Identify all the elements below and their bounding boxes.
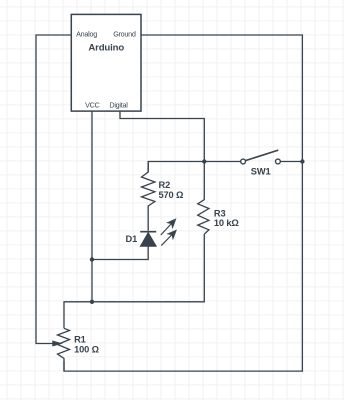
svg-text:SW1: SW1 (251, 166, 271, 176)
wire VCC down (91, 111, 93, 302)
wire Digital to node (120, 111, 204, 162)
svg-text:Arduino: Arduino (88, 42, 124, 53)
svg-text:Ground: Ground (113, 29, 136, 38)
LED D1 (140, 232, 156, 247)
svg-text:R2: R2 (159, 180, 171, 190)
wire Analog to R1 wiper (36, 35, 71, 344)
wire node to R2 top (148, 162, 204, 173)
svg-text:100 Ω: 100 Ω (74, 344, 99, 354)
wire Ground to right rail (64, 35, 302, 371)
junction node SW1/right rail (300, 159, 304, 163)
wire node to SW1 (204, 161, 240, 163)
svg-text:VCC: VCC (85, 101, 99, 110)
resistor R3 (198, 162, 209, 235)
svg-text:Digital: Digital (109, 101, 128, 110)
switch SW1 (241, 150, 281, 164)
svg-text:10 kΩ: 10 kΩ (214, 218, 239, 228)
LED arrows (161, 219, 176, 245)
junction node VCC/bottom row (90, 300, 94, 304)
wire SW1 to right rail (280, 161, 302, 163)
svg-text:Analog: Analog (76, 29, 97, 38)
junction node Digital/R2/R3/SW1 (202, 159, 206, 163)
Arduino U1 box (71, 14, 141, 111)
wire LED bottom (92, 246, 148, 259)
svg-text:570 Ω: 570 Ω (159, 190, 184, 200)
svg-text:R1: R1 (74, 335, 86, 345)
R1 wiper arrow (53, 341, 61, 346)
svg-text:R3: R3 (214, 208, 226, 218)
junction node VCC/LED (90, 257, 94, 261)
svg-text:D1: D1 (126, 234, 138, 244)
wire R3 bottom to bottom node row (64, 234, 204, 328)
resistor R2 (142, 162, 155, 231)
potentiometer R1 (58, 328, 70, 371)
